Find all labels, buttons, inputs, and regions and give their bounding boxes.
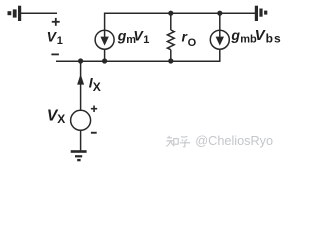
svg-text:bs: bs: [266, 31, 282, 45]
svg-text:@CheliosRyo: @CheliosRyo: [195, 134, 273, 148]
svg-text:X: X: [93, 80, 101, 94]
svg-text:1: 1: [57, 35, 63, 47]
svg-text:1: 1: [143, 34, 149, 46]
svg-text:g: g: [230, 27, 240, 43]
svg-text:X: X: [57, 112, 65, 126]
svg-text:g: g: [117, 28, 127, 44]
svg-text:O: O: [188, 37, 197, 49]
